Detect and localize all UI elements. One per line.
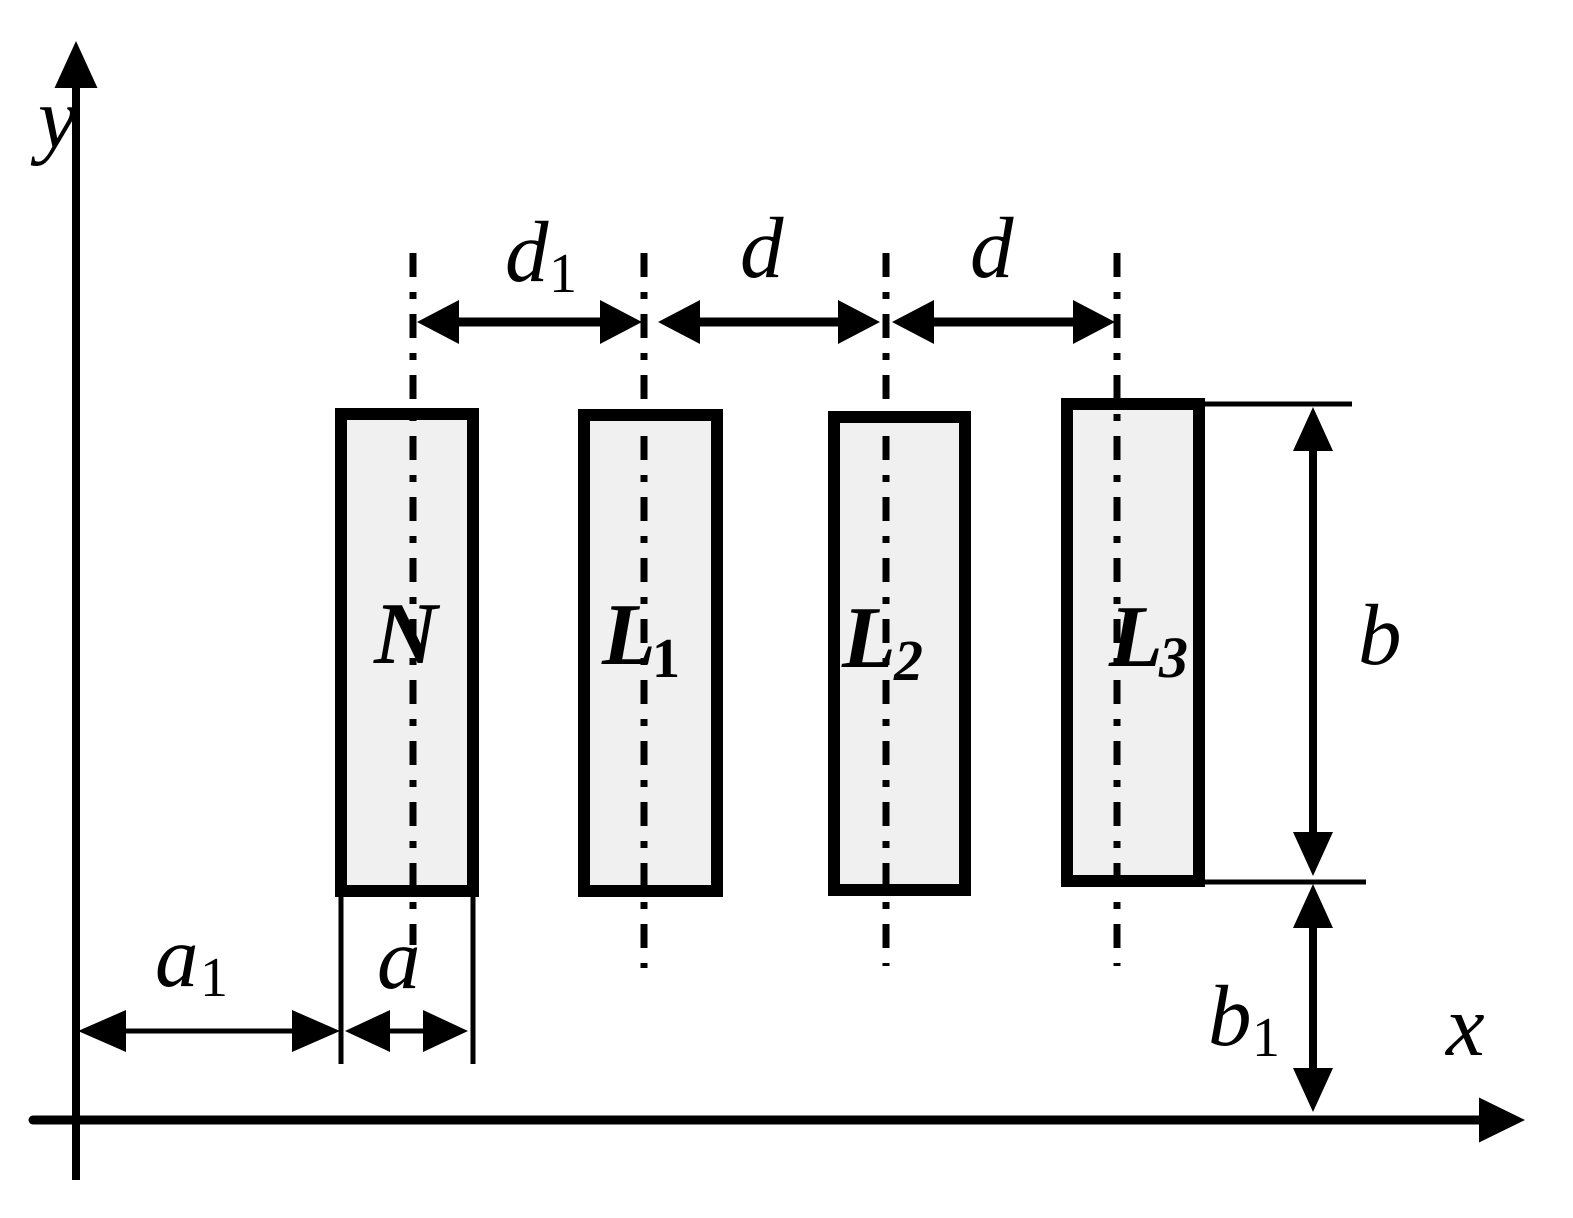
rectangle N xyxy=(341,414,473,891)
svg-text:3: 3 xyxy=(1158,625,1188,690)
svg-text:L: L xyxy=(601,587,656,684)
svg-text:b: b xyxy=(1358,586,1402,683)
centerline of N xyxy=(410,253,417,945)
dimension d (L1 to L2) xyxy=(658,300,880,344)
label b1 xyxy=(1208,967,1280,1069)
extension line bottom right of L3 xyxy=(1205,880,1366,885)
svg-text:d: d xyxy=(505,203,549,300)
centerline of L1 xyxy=(641,253,648,968)
label L1 xyxy=(601,587,680,690)
rectangle L1 xyxy=(584,415,717,891)
centerline of L2 xyxy=(883,253,890,966)
svg-text:2: 2 xyxy=(893,628,923,693)
dimension d (L2 to L3) xyxy=(892,300,1115,344)
dimension a (width of N) xyxy=(345,1010,468,1052)
svg-text:L: L xyxy=(1108,589,1163,686)
svg-text:d: d xyxy=(970,199,1014,296)
x-axis xyxy=(33,1098,1525,1143)
label L3 xyxy=(1108,589,1188,690)
rectangle L2 xyxy=(834,417,965,890)
centerline of L3 xyxy=(1114,253,1121,966)
rectangle L3 xyxy=(1067,404,1199,881)
dimension d1 (N to L1) xyxy=(417,300,642,344)
svg-text:d: d xyxy=(740,199,784,296)
svg-text:1: 1 xyxy=(652,628,680,690)
label L2 xyxy=(841,590,923,693)
svg-text:1: 1 xyxy=(1252,1007,1280,1069)
svg-text:y: y xyxy=(30,69,77,166)
svg-text:x: x xyxy=(1444,977,1485,1074)
svg-text:b: b xyxy=(1208,967,1252,1064)
extension line below N left xyxy=(339,897,344,1064)
dimension a1 (origin to N left) xyxy=(78,1010,340,1052)
svg-text:N: N xyxy=(373,586,441,683)
dimension b1 (vertical) xyxy=(1293,884,1333,1112)
extension line below N right xyxy=(471,897,476,1064)
extension line top right of L3 xyxy=(1205,402,1352,407)
dimension b (vertical) xyxy=(1293,407,1333,876)
svg-text:a: a xyxy=(377,910,421,1007)
svg-text:1: 1 xyxy=(549,243,577,305)
label d1 xyxy=(505,203,577,305)
y-axis xyxy=(55,41,98,1180)
svg-text:a: a xyxy=(155,908,199,1005)
label a1 xyxy=(155,908,228,1009)
svg-text:1: 1 xyxy=(200,947,228,1009)
svg-text:L: L xyxy=(841,590,896,687)
